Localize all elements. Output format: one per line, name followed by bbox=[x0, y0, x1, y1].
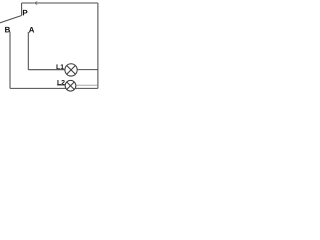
wire terminal A vertical bbox=[27, 32, 29, 70]
wire A to lamp L1 bbox=[28, 69, 65, 71]
lamp L2 label bbox=[57, 80, 64, 85]
wire switch drop to pivot P bbox=[21, 3, 23, 16]
wire terminal B vertical bbox=[9, 32, 11, 89]
wire bottom rail bbox=[10, 87, 98, 89]
lamp L1 label bbox=[57, 64, 64, 69]
node A label bbox=[29, 27, 34, 33]
lamp L1 bbox=[65, 64, 77, 76]
arrow current direction on top rail bbox=[34, 1, 37, 4]
switch blade from P bbox=[0, 16, 22, 23]
node B label bbox=[5, 27, 10, 33]
wire lamp L2 to right bus bbox=[76, 84, 98, 86]
wire into lamp L2 under label bbox=[57, 84, 66, 86]
wire right bus bbox=[97, 3, 99, 88]
wire top rail bbox=[22, 2, 98, 4]
node P label bbox=[23, 10, 28, 16]
wire lamp L1 to right bus bbox=[77, 69, 98, 71]
lamp L2 bbox=[65, 80, 76, 91]
